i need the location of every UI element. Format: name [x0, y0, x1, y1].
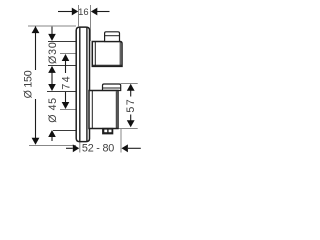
wire: 57 lower extension (knob bottom extended right) [118, 128, 138, 130]
upper knob bottom inner line [93, 64, 122, 66]
wire: 52-80 left extension line [79, 140, 81, 153]
wire: 16 left extension line [78, 5, 80, 26]
escutcheon plate (side profile) [76, 27, 89, 142]
lower knob cap [103, 84, 121, 91]
wire: bottom extension line left (150 lower bound) [29, 145, 76, 147]
wire: 74 lower extension (lower knob axis) [60, 109, 76, 111]
svg-text:Ø30: Ø30 [47, 41, 59, 64]
wire: 52-80 right extension line [120, 129, 122, 153]
lower knob body [89, 91, 118, 129]
svg-text:Ø 45: Ø 45 [47, 97, 59, 122]
wire: O45 lower arrow shaft [51, 137, 53, 142]
svg-text:57: 57 [125, 98, 137, 113]
dimension 74 [65, 61, 67, 102]
safety button white notches [104, 130, 107, 133]
upper knob inner step line [94, 42, 96, 67]
plate front inner line [79, 27, 81, 141]
svg-text:52 - 80: 52 - 80 [82, 143, 114, 155]
wire: knob bottom edge extension (O30 lower) [48, 65, 76, 67]
svg-text:Ø 150: Ø 150 [23, 70, 35, 98]
dimension O45 (outside arrows) [48, 84, 56, 91]
wire: knob top edge extension (O30 upper) [48, 41, 76, 43]
svg-text:74: 74 [61, 75, 73, 90]
wire: top extension line left (plate top extended) [28, 25, 76, 27]
dimension 52-80 (bottom) [66, 147, 141, 149]
dimension O30 (outside arrows) [51, 27, 53, 85]
lower knob inner step line [91, 91, 93, 129]
upper knob right inner line [119, 42, 121, 66]
dimension 16 (top) [58, 11, 110, 13]
wire: 57 upper extension (cap top extended right) [121, 83, 138, 85]
upper knob body [92, 42, 122, 67]
svg-text:16: 16 [78, 6, 88, 17]
wire: bump bottom edge extension (O45 lower) [53, 130, 76, 132]
lower cap bevel line [103, 87, 121, 89]
wire: 74 upper extension (upper knob axis) [60, 53, 76, 55]
wire: lower body top edge extension (O45 upper) [47, 91, 76, 93]
lower knob right inner line [115, 91, 117, 128]
upper knob cap [105, 32, 120, 42]
safety button bump under lower knob [103, 129, 113, 134]
wire: 16 right extension line [90, 5, 92, 41]
dimension O150 (left vertical) [35, 27, 37, 144]
dimension 57 (right vertical) [130, 91, 132, 121]
plate back inner line [86, 27, 88, 141]
upper cap bevel line [105, 35, 120, 37]
